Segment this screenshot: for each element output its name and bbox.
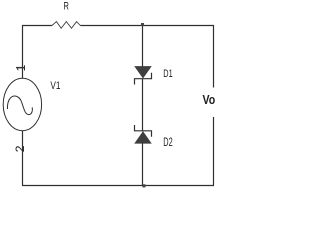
wire left vertical (corner down to source) (22, 26, 24, 79)
wire branch middle (D1 to D2) (142, 79, 144, 131)
svg-text:2: 2 (13, 145, 27, 152)
AC source V1 ellipse body (3, 78, 41, 130)
svg-text:V1: V1 (50, 80, 60, 92)
zener diode D2 triangle (135, 132, 151, 143)
wire right vertical upper (output top lead) (213, 26, 215, 88)
wire bottom horizontal (22, 185, 214, 187)
wire right vertical lower (output bottom lead) (213, 117, 215, 186)
pin number 1 stem stroke (16, 66, 25, 68)
svg-text:Vo: Vo (203, 93, 216, 107)
zener diode D2 cathode bar with bent ends (135, 125, 152, 137)
resistor R zigzag (52, 22, 80, 29)
wire branch upper (top wire down to D1) (142, 26, 144, 67)
svg-text:D2: D2 (163, 137, 172, 149)
zener diode D1 triangle (135, 67, 151, 78)
wire top segment right (resistor to right corner) (80, 25, 214, 27)
wire below source (source to bottom wire) (22, 131, 24, 186)
AC source V1 sine wave (7, 96, 32, 115)
node junction dot top (branch to top wire) (141, 23, 144, 26)
zener diode D1 cathode bar with bent ends (135, 73, 152, 85)
node junction dot bottom (branch to bottom wire) (142, 184, 145, 187)
svg-text:R: R (64, 1, 69, 13)
wire top segment left (corner to resistor) (22, 25, 52, 27)
wire branch lower (D2 to bottom wire) (142, 143, 144, 185)
svg-text:D1: D1 (163, 68, 172, 80)
